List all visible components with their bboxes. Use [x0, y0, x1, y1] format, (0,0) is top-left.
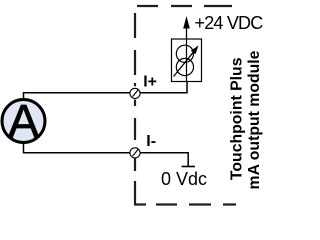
module boundary bottom edge: [134, 203, 236, 205]
wire I+ to current source: [140, 82, 187, 93]
svg-text:Touchpoint Plus: Touchpoint Plus: [229, 57, 246, 180]
wire ammeter top to I+: [24, 93, 131, 99]
wire I- to ground: [140, 153, 188, 166]
svg-text:0 Vdc: 0 Vdc: [161, 169, 207, 189]
current source arrow head: [191, 45, 199, 54]
svg-text:A: A: [8, 95, 40, 148]
svg-text:I+: I+: [143, 73, 157, 90]
module boundary (dashed box) top edge: [137, 5, 232, 7]
ground 0 Vdc bar: [182, 166, 196, 168]
svg-text:+24 VDC: +24 VDC: [195, 13, 264, 33]
ammeter A1: [2, 95, 45, 148]
svg-text:mA output module: mA output module: [246, 50, 263, 189]
terminal I-: [130, 148, 140, 158]
wire ammeter bottom to I-: [24, 143, 131, 153]
+24 VDC supply arrow: [183, 16, 190, 39]
terminal I+: [130, 88, 140, 98]
svg-text:I-: I-: [146, 133, 156, 150]
module boundary left edge: [134, 13, 136, 204]
current source U1: [172, 39, 202, 82]
